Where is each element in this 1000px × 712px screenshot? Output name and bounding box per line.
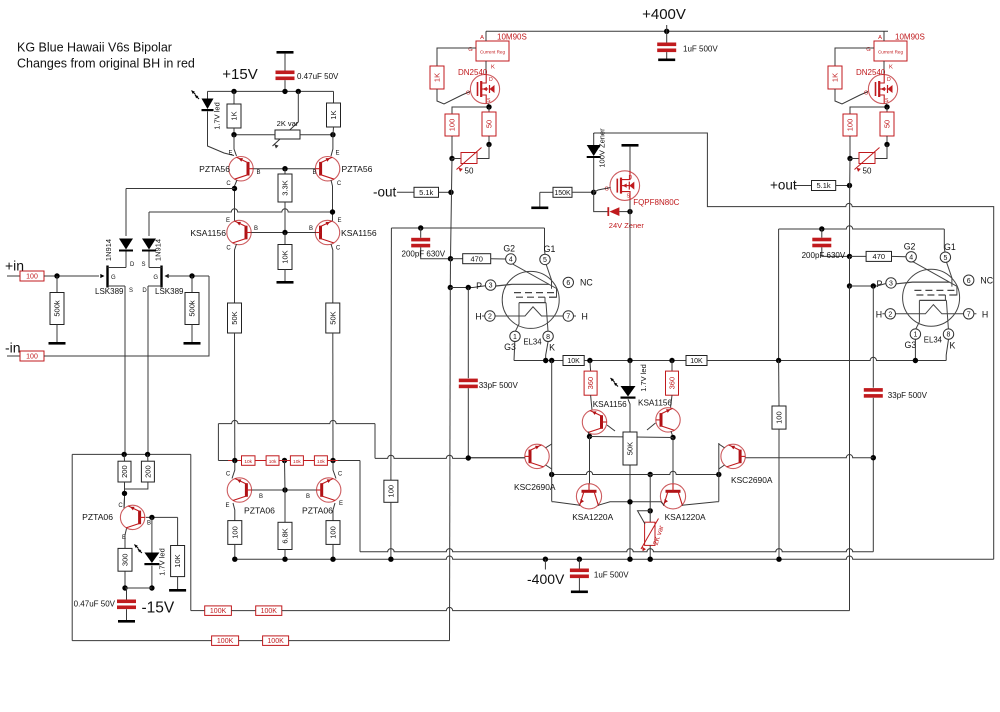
svg-text:24V Zener: 24V Zener <box>609 221 645 230</box>
svg-text:KSC2690A: KSC2690A <box>514 482 556 492</box>
node rail 2 <box>282 557 287 562</box>
pin 4 <box>506 254 516 264</box>
svg-text:33pF 500V: 33pF 500V <box>479 381 519 390</box>
resistor 10k small 2 <box>266 456 279 466</box>
svg-text:50K: 50K <box>626 442 635 455</box>
node diode row join <box>232 186 237 191</box>
svg-text:H: H <box>876 309 882 319</box>
wire red resistor row <box>218 460 228 462</box>
wire 100 to rail <box>234 544 236 559</box>
wire K to drain left <box>485 61 487 75</box>
svg-text:E: E <box>226 218 230 224</box>
resistor 10K <box>171 546 185 577</box>
node C right <box>670 435 675 440</box>
svg-text:H: H <box>582 312 588 322</box>
wire 33pF left to base row <box>467 388 469 458</box>
wire 3.3K to KSA base row <box>284 202 286 233</box>
resistor 50K middle <box>623 432 637 465</box>
svg-text:Current Reg: Current Reg <box>878 50 903 55</box>
node KSA right E <box>330 209 335 214</box>
svg-text:KG Blue Hawaii V6s Bipolar: KG Blue Hawaii V6s Bipolar <box>17 41 172 55</box>
wire 300 to row <box>124 571 126 588</box>
resistor 50 <box>880 112 894 136</box>
svg-text:Current Reg: Current Reg <box>480 50 505 55</box>
node pot right left <box>486 142 491 147</box>
ground below 1uF bottom <box>571 591 588 594</box>
node P row left <box>448 285 453 290</box>
wire 100 chain to rail <box>390 502 392 559</box>
svg-text:EL34: EL34 <box>924 335 943 344</box>
svg-text:200pF 630V: 200pF 630V <box>802 251 846 260</box>
node 33pF left bottom <box>466 455 471 460</box>
wire FQPF gate lead <box>594 188 611 193</box>
node 360 right top <box>669 358 674 363</box>
MOSFET DN2540 right <box>868 74 897 103</box>
transistor Q KSA1156 lower-right <box>656 408 680 432</box>
wire LED to 50K <box>628 399 630 432</box>
svg-text:3.3K: 3.3K <box>281 180 290 195</box>
svg-text:8: 8 <box>947 332 951 339</box>
wire KSC left C to frame <box>546 444 552 448</box>
svg-text:B: B <box>312 170 316 176</box>
node frame right row <box>716 472 721 477</box>
svg-text:5.1k: 5.1k <box>419 188 433 197</box>
node -out junction <box>448 190 453 195</box>
svg-text:100: 100 <box>329 526 338 539</box>
capacitor 200pF bars left <box>411 238 430 248</box>
resistor 3.3K <box>278 174 292 202</box>
svg-text:1N914: 1N914 <box>154 239 163 261</box>
wire 2K wiper jog <box>638 511 651 524</box>
resistor 500k <box>50 293 64 325</box>
wire 2K pot to rail <box>649 545 651 559</box>
resistor 470 right <box>866 251 891 261</box>
node rail 1 <box>232 557 237 562</box>
wire 1K to gate right <box>835 89 868 104</box>
wire diode1 to drain <box>125 252 127 268</box>
node pot top <box>648 508 653 513</box>
svg-text:5: 5 <box>943 255 947 262</box>
capacitor 0.47uF 50V bottom bars <box>117 600 136 610</box>
tube left G2 lead internal <box>513 264 557 297</box>
wire cap to +15V row <box>284 80 286 91</box>
tube right cathode lead <box>916 300 920 329</box>
wire 500k to ground <box>56 325 58 343</box>
wire cross connect row <box>590 437 674 438</box>
wire KSC left base row <box>468 457 525 459</box>
transistor Q KSA1156 upper-right <box>315 220 339 244</box>
pot arrow left <box>457 148 482 170</box>
node source junction right <box>884 104 889 109</box>
svg-text:Changes from original BH in re: Changes from original BH in red <box>17 57 195 71</box>
wire P row left <box>450 286 485 288</box>
wire -in lead <box>7 355 20 357</box>
wire K to drain right <box>883 61 885 75</box>
potentiometer 50 left <box>461 153 477 164</box>
pin 6 <box>964 275 974 285</box>
svg-text:KSA1156: KSA1156 <box>638 399 672 408</box>
node +out junction <box>847 183 852 188</box>
resistor 150K <box>553 187 572 197</box>
svg-text:C: C <box>226 472 231 478</box>
wire PZTA06 B to right <box>146 516 178 518</box>
wire cap to gnd <box>126 609 128 620</box>
svg-text:P: P <box>876 279 882 289</box>
capacitor 1uF 500V bottom <box>578 559 580 568</box>
svg-text:-out: -out <box>373 185 397 200</box>
wire PZTA06 E to 300 <box>125 529 127 549</box>
wire feedback row D 100K <box>72 640 211 642</box>
wire +15V row <box>208 90 334 92</box>
wire LED bottom to E <box>208 111 235 155</box>
svg-text:KSA1156: KSA1156 <box>190 228 226 238</box>
tube right G2 lead internal <box>913 262 957 295</box>
wire cathode row segment A <box>514 360 563 362</box>
svg-text:D: D <box>887 77 891 83</box>
wire KSC right C to frame <box>719 444 725 448</box>
wire diode row <box>126 188 235 190</box>
ground below 150K <box>531 207 548 210</box>
wire 5.1k+ to node <box>836 185 850 187</box>
node E right <box>330 132 335 137</box>
current regulator U 10M90S right <box>874 41 907 61</box>
resistor 100K R1a <box>205 606 232 616</box>
wire cathode row segment C <box>707 357 946 360</box>
wire cathode row segment B <box>584 360 686 362</box>
svg-text:470: 470 <box>873 252 886 261</box>
node rail 6 <box>627 557 632 562</box>
wire bottom row -15V <box>125 587 152 589</box>
wire right chain vertical upper <box>849 159 852 257</box>
svg-text:100K: 100K <box>261 608 278 615</box>
transistor Q KSA1156 lower-left <box>582 410 606 434</box>
node G2 row left <box>448 256 453 261</box>
resistor 200 <box>141 461 154 482</box>
pin 6 <box>563 277 573 287</box>
svg-text:G: G <box>605 187 609 193</box>
node rail 7 <box>648 557 653 562</box>
wire 100 down right <box>849 136 851 159</box>
resistor 10k small 3 <box>290 456 303 466</box>
resistor 1K left of LED <box>233 91 235 104</box>
svg-text:NC: NC <box>580 278 593 288</box>
svg-text:+out: +out <box>770 178 797 193</box>
svg-text:1K: 1K <box>230 111 239 120</box>
wire frame left vertical <box>551 361 553 502</box>
node +400V junction <box>664 29 669 34</box>
svg-text:4: 4 <box>909 254 913 261</box>
node KSC right base <box>871 455 876 460</box>
resistor 500k right <box>191 276 193 293</box>
svg-text:-15V: -15V <box>142 600 175 617</box>
resistor 100 E right <box>333 503 335 521</box>
svg-text:NC: NC <box>980 275 993 285</box>
wire G lead left <box>437 48 476 66</box>
svg-text:KSC2690A: KSC2690A <box>731 475 773 485</box>
wire 50K through row <box>629 432 631 502</box>
pin 5 <box>540 254 550 264</box>
LED 1.7V left-top <box>192 91 214 112</box>
node 360 left top <box>587 358 592 363</box>
node rail 3 <box>330 557 335 562</box>
svg-text:DN2540: DN2540 <box>856 68 886 77</box>
diode 24V Zener red <box>607 207 619 216</box>
svg-text:100: 100 <box>775 411 784 424</box>
LED 1.7V bottom-left <box>134 545 159 566</box>
node rail 8 <box>776 557 781 562</box>
svg-text:100: 100 <box>26 354 38 361</box>
resistor 100 right-mid <box>778 361 780 407</box>
wire G lead right <box>835 48 874 66</box>
node cap <box>282 89 287 94</box>
JFET LSK389 left <box>100 266 126 288</box>
wire red row end corner down <box>359 461 361 552</box>
svg-text:E: E <box>228 151 232 157</box>
svg-text:100: 100 <box>26 274 38 281</box>
resistor 360 <box>584 371 597 395</box>
wire cap to ground <box>666 52 668 58</box>
wire feedback right vertical <box>190 454 192 610</box>
transistor Q KSA1220A left <box>576 484 601 509</box>
wire 100 down left <box>451 136 453 159</box>
svg-text:1: 1 <box>513 334 517 341</box>
capacitor C 1uF 500V top <box>666 31 668 42</box>
wire JFET2 drain down <box>147 286 149 454</box>
node LED bottom <box>149 585 154 590</box>
node LED chain top <box>627 358 632 363</box>
wire pot leads left <box>452 158 461 160</box>
svg-text:PZTA06: PZTA06 <box>244 506 275 516</box>
svg-text:10k: 10k <box>244 459 252 465</box>
resistor 50 <box>482 112 496 136</box>
wire red row segments <box>255 460 266 462</box>
svg-text:360: 360 <box>668 377 677 390</box>
wire frame right vertical <box>718 443 720 502</box>
wire G1 row right <box>779 226 945 229</box>
wire row R to +out corner <box>282 607 850 610</box>
wire G1 row left <box>391 227 544 229</box>
ground below 0.47uF bottom <box>118 620 135 623</box>
svg-text:10K: 10K <box>173 554 182 567</box>
svg-text:D: D <box>142 288 147 294</box>
svg-text:C: C <box>226 246 231 252</box>
tube right G2 dashes <box>914 290 956 295</box>
pin 3 <box>886 278 896 288</box>
resistor 100K R1b <box>256 606 282 616</box>
node wiper <box>296 89 301 94</box>
tube left G1 lead internal <box>546 265 551 289</box>
svg-text:E: E <box>339 501 343 507</box>
node P row right <box>847 283 852 288</box>
svg-text:2: 2 <box>888 311 892 318</box>
svg-text:LSK389: LSK389 <box>155 287 184 296</box>
svg-text:S: S <box>487 98 491 104</box>
svg-text:100: 100 <box>230 526 239 539</box>
capacitor 1uF 500V bars <box>657 43 676 53</box>
wire between 100K row2 <box>239 640 263 642</box>
pin 3 <box>485 280 495 290</box>
wire diode1 chain <box>125 189 127 237</box>
svg-text:50K: 50K <box>230 311 239 324</box>
resistor 3.3K <box>284 169 286 174</box>
resistor 500k left <box>56 276 58 293</box>
svg-text:LSK389: LSK389 <box>95 287 124 296</box>
resistor 300 <box>118 548 132 571</box>
svg-text:B: B <box>259 494 263 500</box>
wire 6.8K to rail <box>284 550 286 560</box>
node +in junction <box>54 273 59 278</box>
pin 2 <box>885 309 895 319</box>
svg-text:+400V: +400V <box>642 6 686 23</box>
tube right H stubs <box>882 313 976 315</box>
pot wiper arrow 2K var <box>273 122 299 146</box>
svg-text:33pF 500V: 33pF 500V <box>888 391 928 400</box>
tube left cathode lead <box>515 303 519 332</box>
wire 100 right to rail <box>332 544 334 559</box>
wire LED chain mid <box>629 361 631 387</box>
wire row to KSA1156 right E <box>149 209 333 212</box>
svg-text:G: G <box>111 275 116 281</box>
transistor Q KSC2690A right <box>721 444 745 468</box>
svg-text:7: 7 <box>967 311 971 318</box>
wire 1uF to gnd <box>578 578 580 590</box>
wire 150K left lead <box>540 191 553 193</box>
svg-text:KSA1156: KSA1156 <box>341 228 377 238</box>
wire 50K chain down to rail <box>629 502 631 559</box>
wire feedback vertical left-tube P <box>449 288 452 641</box>
wire 1K right to node <box>332 127 335 135</box>
svg-text:6: 6 <box>566 280 570 287</box>
svg-text:1K: 1K <box>433 73 442 82</box>
wire KSC right E to frame <box>719 465 725 469</box>
svg-text:10k: 10k <box>317 459 325 465</box>
diode 1N914 right <box>142 239 156 252</box>
ground <box>622 144 639 147</box>
tube V EL34 right envelope <box>903 269 960 326</box>
node 6.8K top <box>282 487 287 492</box>
svg-text:100V Zener: 100V Zener <box>598 128 607 168</box>
wire +out vertical down <box>849 286 851 611</box>
wire red row mid to base <box>284 461 287 491</box>
capacitor 33pF 500V left bars <box>459 379 478 389</box>
wire 470 to pin4 <box>491 258 506 260</box>
wire feedback top row <box>72 453 191 455</box>
resistor 100K R2b <box>263 636 289 646</box>
wire PZTA06 mid right C <box>333 461 336 479</box>
wire pot leads right <box>850 158 859 160</box>
wire G1 drop to pin5 <box>544 228 547 254</box>
pin 8 <box>943 329 953 339</box>
wire 33pF left vertical <box>467 288 469 379</box>
svg-text:H: H <box>982 309 988 319</box>
resistor 5.1k +out <box>812 181 836 191</box>
svg-text:1.7V led: 1.7V led <box>158 548 167 576</box>
tube left G2 dashes <box>514 293 556 298</box>
node rail 1uF <box>577 557 582 562</box>
wire row P long <box>360 549 873 552</box>
node pot left left <box>449 156 454 161</box>
svg-text:300: 300 <box>121 554 130 567</box>
svg-text:S: S <box>129 288 133 294</box>
node C left <box>587 434 592 439</box>
wire row to KSC base <box>468 457 525 460</box>
resistor 470 left <box>463 254 491 264</box>
tube right K lead internal <box>945 295 948 329</box>
potentiometer 2K var bottom <box>649 475 651 523</box>
tube left plate <box>496 284 549 286</box>
transistor Q KSA1156 upper-left <box>227 220 251 244</box>
transistor Q KSA1220A right <box>660 484 685 509</box>
svg-text:B: B <box>257 170 261 176</box>
tube right G1 lead internal <box>947 262 952 286</box>
svg-text:1uF 500V: 1uF 500V <box>683 45 718 54</box>
capacitor 0.47uF 50V top bars <box>276 71 295 81</box>
svg-text:1N914: 1N914 <box>104 239 113 261</box>
resistor 200 right <box>147 454 149 461</box>
node 200 left top <box>122 452 127 457</box>
node pot left right <box>847 156 852 161</box>
wire source node left <box>452 104 489 115</box>
node pot tap row <box>648 472 653 477</box>
pin 7 <box>964 309 974 319</box>
transistor Q PZTA06 bottom-left <box>120 505 144 529</box>
svg-text:P: P <box>476 281 482 291</box>
svg-text:K: K <box>549 343 555 353</box>
svg-text:KSA1156: KSA1156 <box>593 400 627 409</box>
svg-text:500k: 500k <box>188 300 197 317</box>
capacitor 33pF 500V right bars <box>864 388 883 398</box>
wire right tube G3 lead <box>914 339 916 360</box>
svg-text:G2: G2 <box>503 244 515 254</box>
resistor 10K mid <box>284 233 286 245</box>
MOSFET DN2540 left <box>470 74 499 103</box>
resistor 100K R2a <box>212 636 239 646</box>
wire KSA1220 right to frame <box>682 502 719 506</box>
wire PZTA06 base row mid <box>252 489 317 491</box>
svg-text:KSA1220A: KSA1220A <box>665 512 706 522</box>
svg-text:1uF 500V: 1uF 500V <box>594 571 629 580</box>
wire PZTA56 base row <box>253 168 315 170</box>
svg-text:2: 2 <box>488 314 492 321</box>
wire +400V label stem <box>666 25 668 31</box>
wire A lead right <box>883 31 885 41</box>
pot 2K var box <box>645 522 655 545</box>
pin 5 <box>940 252 950 262</box>
potentiometer 50 right <box>859 153 875 164</box>
svg-text:200pF 630V: 200pF 630V <box>402 250 446 259</box>
svg-text:50: 50 <box>863 167 872 176</box>
svg-text:K: K <box>949 340 955 350</box>
wire KSA1156 base stubs <box>607 425 615 431</box>
transistor Q PZTA56 right <box>315 157 339 181</box>
wire LED bottom-left chain <box>151 517 153 552</box>
wire 10K to ground <box>284 270 286 282</box>
resistor 6.8K <box>284 490 286 522</box>
wire 360 right to KSA1156 <box>671 395 673 408</box>
wire E right down <box>331 135 333 156</box>
svg-text:S: S <box>885 98 889 104</box>
node -in junction <box>189 273 194 278</box>
svg-text:1.7V led: 1.7V led <box>639 364 648 392</box>
tube right plate <box>896 282 949 284</box>
svg-text:C: C <box>226 181 231 187</box>
svg-text:0.47uF 50V: 0.47uF 50V <box>74 600 116 609</box>
resistor 10K bottom-left <box>177 517 179 545</box>
node 100 right top <box>776 358 781 363</box>
node 33pF left top <box>466 285 471 290</box>
resistor 1K <box>327 103 341 127</box>
wire G2 row left <box>451 258 463 260</box>
